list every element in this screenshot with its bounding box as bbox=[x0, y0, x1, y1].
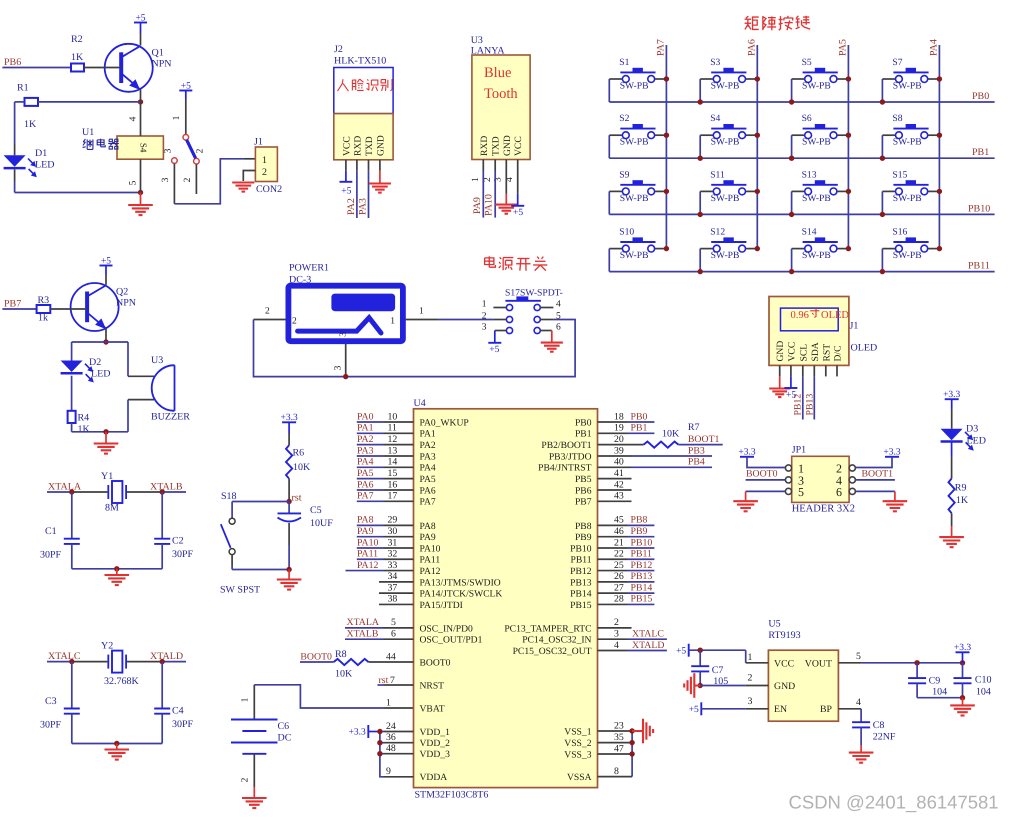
svg-text:1: 1 bbox=[172, 115, 182, 120]
net label PA4 bbox=[929, 39, 940, 56]
junction bbox=[343, 374, 348, 379]
svg-text:16: 16 bbox=[388, 479, 398, 490]
svg-text:PA1: PA1 bbox=[357, 423, 374, 434]
svg-text:S10: S10 bbox=[619, 227, 634, 238]
wire bbox=[71, 376, 73, 411]
pin 32 wire bbox=[357, 549, 414, 560]
svg-text:37: 37 bbox=[388, 582, 398, 593]
net label rst (NRST) bbox=[379, 675, 389, 686]
svg-text:OLED: OLED bbox=[851, 343, 878, 354]
svg-text:S6: S6 bbox=[802, 113, 812, 124]
svg-text:PB12: PB12 bbox=[570, 566, 592, 577]
pushbutton S15 SW-PB bbox=[882, 169, 939, 204]
svg-text:VOUT: VOUT bbox=[805, 658, 832, 669]
junction bbox=[789, 246, 851, 274]
svg-text:1k: 1k bbox=[38, 313, 48, 324]
wire to buzzer bbox=[128, 342, 154, 432]
pin names U4 right bbox=[504, 417, 591, 783]
wire bbox=[105, 328, 107, 342]
svg-text:J1: J1 bbox=[254, 137, 263, 148]
svg-text:+5: +5 bbox=[341, 187, 351, 197]
junction bbox=[69, 489, 165, 494]
net label PA2 bbox=[357, 434, 374, 445]
net label PA1 bbox=[357, 423, 374, 434]
svg-text:BOOT0: BOOT0 bbox=[420, 657, 451, 668]
svg-text:PB13: PB13 bbox=[804, 394, 815, 416]
net label BOOT1 (JP1) bbox=[862, 468, 894, 479]
svg-text:PB6: PB6 bbox=[575, 485, 592, 496]
wire loop bbox=[254, 320, 576, 377]
svg-text:JP1: JP1 bbox=[792, 445, 806, 456]
module U3 LANYA bbox=[471, 35, 530, 160]
wire bbox=[47, 491, 186, 493]
svg-text:PB12: PB12 bbox=[793, 394, 804, 416]
ground (VSS) bbox=[632, 719, 653, 744]
net label XTALD bbox=[150, 651, 183, 662]
module J1 OLED bbox=[769, 297, 877, 366]
svg-text:4: 4 bbox=[556, 300, 561, 310]
svg-text:+5: +5 bbox=[135, 13, 145, 23]
wire bbox=[608, 249, 610, 272]
svg-text:PB2/BOOT1: PB2/BOOT1 bbox=[541, 440, 591, 451]
svg-text:1K: 1K bbox=[71, 52, 84, 63]
svg-text:3: 3 bbox=[482, 323, 487, 333]
ground (Y1) bbox=[105, 569, 130, 585]
junction bbox=[880, 133, 942, 161]
capacitor C1 bbox=[40, 526, 80, 561]
svg-text:PA15/JTDI: PA15/JTDI bbox=[420, 600, 463, 611]
wire / net BOOT1 bbox=[678, 434, 722, 445]
capacitor C2 bbox=[154, 536, 193, 561]
wire PA3 bbox=[358, 171, 369, 218]
wire bbox=[72, 714, 162, 744]
svg-text:LED: LED bbox=[91, 369, 110, 380]
label Blue Tooth bbox=[484, 65, 518, 102]
pin 29 wire bbox=[357, 515, 414, 526]
net label PA5 bbox=[838, 39, 849, 56]
svg-text:10K: 10K bbox=[662, 429, 680, 440]
svg-text:PB10: PB10 bbox=[631, 537, 653, 548]
svg-text:SW-PB: SW-PB bbox=[802, 81, 831, 92]
svg-text:S11: S11 bbox=[710, 169, 725, 180]
svg-text:PA4: PA4 bbox=[357, 457, 374, 468]
pin 26 wire / net PB13 bbox=[598, 571, 655, 582]
svg-text:PA4: PA4 bbox=[929, 39, 940, 56]
wire bbox=[72, 544, 162, 569]
net label BOOT0 bbox=[300, 651, 332, 662]
svg-text:PA4: PA4 bbox=[420, 463, 436, 474]
wire bbox=[15, 102, 141, 155]
svg-text:PA2: PA2 bbox=[357, 434, 374, 445]
svg-text:1: 1 bbox=[482, 300, 487, 310]
pin 44 wire bbox=[369, 651, 414, 662]
net label PA3 bbox=[357, 445, 374, 456]
svg-text:Q2: Q2 bbox=[116, 287, 128, 298]
svg-text:VSSA: VSSA bbox=[567, 772, 592, 783]
wire row bbox=[609, 213, 994, 215]
junction bbox=[698, 683, 703, 688]
svg-text:+3.3: +3.3 bbox=[738, 448, 755, 458]
wire bbox=[608, 79, 610, 102]
wire / ground (JP1 pin6) bbox=[856, 491, 908, 511]
label 0.96寸OLED bbox=[791, 308, 850, 321]
ground (Y2) bbox=[105, 744, 130, 760]
ground (C7) bbox=[684, 673, 700, 698]
svg-text:6: 6 bbox=[556, 323, 561, 333]
ground (R9) bbox=[939, 537, 964, 547]
wire bbox=[791, 249, 793, 272]
pin 41 stub bbox=[598, 468, 632, 479]
svg-text:PB1: PB1 bbox=[575, 429, 592, 440]
svg-text:+5: +5 bbox=[101, 256, 111, 266]
pushbutton S8 SW-PB bbox=[882, 113, 939, 148]
resistor R9 bbox=[949, 479, 969, 514]
svg-text:PA5: PA5 bbox=[357, 468, 374, 479]
svg-text:rst: rst bbox=[292, 493, 302, 504]
svg-text:R9: R9 bbox=[955, 483, 967, 494]
svg-text:D2: D2 bbox=[89, 357, 101, 368]
pin 15 wire bbox=[357, 468, 414, 479]
svg-text:D/C: D/C bbox=[833, 346, 844, 362]
svg-text:VCC: VCC bbox=[341, 136, 352, 156]
power +3.3 (R6) bbox=[280, 413, 297, 445]
pin 2 (POWER1) bbox=[254, 307, 298, 327]
LED D3 bbox=[941, 424, 986, 451]
power +3.3 (VOUT) bbox=[954, 643, 971, 663]
svg-text:10K: 10K bbox=[293, 462, 311, 473]
power +3.3 (VDD) bbox=[349, 725, 380, 738]
svg-text:25: 25 bbox=[614, 560, 624, 571]
wire bbox=[881, 191, 883, 214]
svg-text:1K: 1K bbox=[956, 495, 969, 506]
wire / net PB12 bbox=[793, 376, 804, 419]
junction bbox=[664, 133, 669, 138]
svg-text:C3: C3 bbox=[45, 696, 57, 707]
pin names U3 bbox=[479, 135, 524, 156]
net label rst bbox=[292, 493, 302, 504]
svg-text:C1: C1 bbox=[45, 526, 57, 537]
net label PB6 bbox=[4, 57, 21, 68]
pin 3 wire / net XTALC bbox=[598, 629, 667, 640]
power +5 (J2) bbox=[340, 171, 353, 197]
pin 45 wire / net PB8 bbox=[598, 515, 655, 526]
svg-text:RT9193: RT9193 bbox=[768, 630, 800, 641]
svg-text:4: 4 bbox=[614, 640, 619, 651]
pushbutton S14 SW-PB bbox=[792, 227, 849, 262]
svg-text:C8: C8 bbox=[873, 720, 885, 731]
svg-text:BOOT0: BOOT0 bbox=[746, 468, 778, 479]
pin 28 wire / net PB15 bbox=[598, 594, 655, 605]
capacitor C9 bbox=[908, 663, 947, 698]
svg-text:PA6: PA6 bbox=[420, 485, 436, 496]
junction bbox=[698, 648, 703, 653]
svg-text:PA2: PA2 bbox=[346, 198, 357, 215]
pin 5 wire bbox=[838, 651, 962, 663]
svg-text:PB10: PB10 bbox=[968, 203, 990, 214]
pin 30 wire bbox=[357, 526, 414, 537]
svg-text:rst: rst bbox=[379, 675, 389, 686]
svg-text:3: 3 bbox=[161, 177, 171, 182]
battery C6 DC bbox=[231, 720, 292, 754]
svg-text:PA9: PA9 bbox=[472, 197, 483, 214]
svg-text:S14: S14 bbox=[802, 227, 817, 238]
svg-text:PC13_TAMPER_RTC: PC13_TAMPER_RTC bbox=[504, 623, 591, 634]
svg-text:SW-PB: SW-PB bbox=[893, 250, 922, 261]
svg-text:4: 4 bbox=[129, 116, 139, 121]
svg-text:CSDN @2401_86147581: CSDN @2401_86147581 bbox=[789, 792, 999, 813]
junction bbox=[698, 76, 761, 104]
svg-text:2: 2 bbox=[196, 148, 206, 153]
svg-text:XTALD: XTALD bbox=[150, 651, 183, 662]
wire bbox=[951, 442, 953, 478]
svg-text:PB14: PB14 bbox=[631, 582, 653, 593]
pin wires J2 bbox=[346, 160, 380, 171]
svg-text:HEADER 3X2: HEADER 3X2 bbox=[792, 504, 855, 515]
label 继电器 bbox=[83, 139, 119, 150]
svg-text:SW-PB: SW-PB bbox=[711, 137, 740, 148]
pin names J2 bbox=[341, 135, 386, 156]
svg-text:S1: S1 bbox=[619, 57, 629, 68]
svg-text:Blue: Blue bbox=[484, 65, 511, 81]
svg-text:23: 23 bbox=[614, 720, 624, 731]
svg-text:S9: S9 bbox=[619, 169, 629, 180]
pin 1 wire bbox=[746, 650, 769, 663]
svg-text:PA12: PA12 bbox=[357, 560, 379, 571]
svg-text:S8: S8 bbox=[892, 113, 902, 124]
svg-text:48: 48 bbox=[386, 743, 396, 754]
junction bbox=[880, 76, 942, 104]
power +5 (U3) bbox=[511, 160, 524, 219]
pin stubs S17 bbox=[493, 308, 553, 320]
net label PA9 bbox=[357, 526, 374, 537]
pin 40 wire / net PB4 bbox=[598, 457, 713, 468]
wire VSS bus bbox=[598, 731, 633, 777]
svg-text:PB11: PB11 bbox=[631, 549, 653, 560]
svg-text:XTALA: XTALA bbox=[48, 481, 82, 492]
svg-text:C9: C9 bbox=[929, 676, 941, 687]
svg-text:3: 3 bbox=[338, 332, 348, 337]
svg-text:22NF: 22NF bbox=[873, 732, 896, 743]
svg-text:SDA: SDA bbox=[810, 342, 821, 361]
svg-text:D3: D3 bbox=[966, 424, 978, 435]
svg-text:7: 7 bbox=[390, 675, 395, 686]
regulator U5 RT9193 bbox=[768, 619, 838, 722]
wire bbox=[50, 308, 87, 310]
ground (OLED) bbox=[769, 376, 790, 397]
wire bbox=[791, 79, 793, 102]
svg-text:U5: U5 bbox=[768, 619, 780, 630]
wire column PA6 bbox=[756, 45, 758, 249]
junction bbox=[789, 189, 851, 217]
svg-text:PB12: PB12 bbox=[631, 560, 653, 571]
svg-text:2: 2 bbox=[265, 307, 270, 317]
svg-text:VSS_2: VSS_2 bbox=[564, 738, 591, 749]
net label XTALC bbox=[48, 651, 81, 662]
wire bbox=[72, 423, 128, 432]
svg-text:R2: R2 bbox=[71, 34, 83, 45]
LED D2 bbox=[61, 357, 111, 383]
junction bbox=[880, 246, 942, 274]
svg-text:XTALD: XTALD bbox=[632, 640, 664, 651]
pin 1 number bbox=[386, 697, 391, 708]
svg-text:30PF: 30PF bbox=[40, 550, 62, 561]
wire bbox=[951, 513, 953, 537]
svg-text:SW-PB: SW-PB bbox=[620, 81, 649, 92]
wire column PA7 bbox=[665, 45, 667, 249]
svg-text:11: 11 bbox=[388, 423, 398, 434]
net label XTALB bbox=[150, 481, 183, 492]
svg-text:3: 3 bbox=[164, 148, 174, 153]
ground (C6) bbox=[242, 787, 267, 808]
svg-text:18: 18 bbox=[614, 411, 624, 422]
svg-text:47: 47 bbox=[614, 743, 624, 754]
pushbutton S6 SW-PB bbox=[792, 113, 849, 148]
svg-text:2: 2 bbox=[241, 777, 251, 782]
power +5 (switch) bbox=[179, 81, 192, 134]
svg-text:PA5: PA5 bbox=[838, 39, 849, 56]
svg-text:R3: R3 bbox=[38, 295, 50, 306]
svg-text:36: 36 bbox=[386, 732, 396, 743]
svg-text:PB4: PB4 bbox=[688, 457, 705, 468]
wire row bbox=[609, 101, 994, 103]
pin names U4 left bbox=[420, 417, 503, 783]
svg-text:HLK-TX510: HLK-TX510 bbox=[334, 56, 386, 67]
svg-text:Tooth: Tooth bbox=[484, 86, 518, 102]
net label XTALB (U4) bbox=[347, 629, 379, 640]
net label PA6 bbox=[357, 479, 374, 490]
ground (C10) bbox=[950, 698, 975, 716]
svg-text:U4: U4 bbox=[414, 398, 426, 409]
svg-text:VDD_1: VDD_1 bbox=[420, 727, 451, 738]
resistor R2 bbox=[71, 34, 84, 72]
pin 18 wire / net PB0 bbox=[598, 411, 655, 422]
svg-text:SW-PB: SW-PB bbox=[711, 250, 740, 261]
svg-text:30PF: 30PF bbox=[40, 720, 62, 731]
svg-text:10K: 10K bbox=[335, 669, 353, 680]
svg-text:PB10: PB10 bbox=[570, 543, 592, 554]
svg-text:3: 3 bbox=[334, 365, 344, 370]
svg-text:29: 29 bbox=[388, 515, 398, 526]
svg-text:1K: 1K bbox=[78, 424, 91, 435]
svg-text:PB7: PB7 bbox=[4, 298, 21, 309]
svg-text:42: 42 bbox=[614, 479, 624, 490]
wire PA2 bbox=[346, 171, 357, 218]
net label PA11 bbox=[357, 549, 378, 560]
pin 25 wire / net PB12 bbox=[598, 560, 655, 571]
svg-text:+3.3: +3.3 bbox=[943, 390, 960, 400]
svg-text:3: 3 bbox=[748, 696, 753, 707]
svg-text:10UF: 10UF bbox=[310, 518, 333, 529]
svg-text:1: 1 bbox=[748, 652, 753, 663]
wire bbox=[72, 492, 162, 539]
resistor R8 bbox=[334, 649, 369, 680]
svg-text:Y1: Y1 bbox=[101, 471, 113, 482]
svg-text:J2: J2 bbox=[334, 44, 343, 55]
svg-text:24: 24 bbox=[386, 721, 396, 732]
svg-text:Q1: Q1 bbox=[152, 48, 164, 59]
pin 2 (C6) bbox=[241, 754, 255, 787]
svg-text:PA0_WKUP: PA0_WKUP bbox=[420, 417, 469, 428]
svg-text:TXD: TXD bbox=[491, 136, 502, 156]
pushbutton S3 SW-PB bbox=[700, 57, 757, 92]
power +5 (S17 pin3) bbox=[488, 331, 506, 356]
svg-text:PB11: PB11 bbox=[968, 261, 990, 272]
svg-text:XTALA: XTALA bbox=[347, 617, 379, 628]
wire column PA5 bbox=[847, 45, 849, 249]
svg-text:PA10: PA10 bbox=[484, 194, 495, 216]
svg-text:PA14/JTCK/SWCLK: PA14/JTCK/SWCLK bbox=[420, 589, 503, 600]
wire bbox=[699, 79, 701, 102]
svg-text:+5: +5 bbox=[489, 345, 499, 355]
resistor R3 bbox=[37, 295, 51, 324]
junction bbox=[103, 429, 108, 434]
net label PB7 bbox=[4, 298, 21, 309]
pin 39 wire / net PB3 bbox=[598, 445, 713, 456]
wire / net PB13 bbox=[804, 376, 815, 419]
junction bbox=[789, 133, 851, 161]
svg-text:OLED: OLED bbox=[821, 310, 849, 321]
svg-text:PB4/JNTRST: PB4/JNTRST bbox=[538, 463, 591, 474]
svg-text:S4: S4 bbox=[138, 143, 148, 153]
svg-text:SW-PB: SW-PB bbox=[620, 250, 649, 261]
svg-text:C10: C10 bbox=[975, 675, 992, 686]
svg-text:+5: +5 bbox=[689, 705, 699, 715]
resistor R1 bbox=[17, 83, 38, 131]
svg-text:VCC: VCC bbox=[513, 136, 524, 156]
svg-text:PB14: PB14 bbox=[570, 589, 592, 600]
svg-text:GND: GND bbox=[375, 135, 386, 156]
svg-text:21: 21 bbox=[614, 537, 624, 548]
svg-text:R1: R1 bbox=[17, 83, 29, 94]
junction bbox=[69, 659, 165, 664]
IC U4 STM32F103C8T6 bbox=[414, 398, 598, 801]
svg-text:34: 34 bbox=[388, 571, 398, 582]
svg-text:VCC: VCC bbox=[774, 658, 794, 669]
wire bbox=[288, 479, 290, 502]
connector J1 bbox=[254, 137, 282, 196]
power +5 (OLED) bbox=[784, 376, 797, 400]
pin 3 (POWER1) bbox=[334, 332, 348, 377]
svg-text:0.96: 0.96 bbox=[791, 310, 809, 321]
svg-text:PA3: PA3 bbox=[357, 445, 374, 456]
svg-text:+3.3: +3.3 bbox=[954, 643, 971, 653]
crystal Y2 bbox=[101, 641, 140, 688]
pin 2 wire bbox=[700, 673, 768, 686]
wire bbox=[288, 523, 290, 570]
svg-text:VDD_3: VDD_3 bbox=[420, 749, 451, 760]
svg-text:PB0: PB0 bbox=[972, 91, 989, 102]
wire bbox=[232, 555, 289, 570]
svg-text:PA10: PA10 bbox=[420, 543, 441, 554]
svg-text:BP: BP bbox=[820, 704, 833, 715]
junction bbox=[664, 189, 669, 194]
power +5 (U5 VCC) bbox=[676, 644, 746, 657]
pin 1 label bbox=[172, 115, 182, 120]
power +3.3 (JP1 pin1) bbox=[738, 448, 785, 468]
wire column PA4 bbox=[938, 45, 940, 249]
junction bbox=[138, 99, 143, 104]
wire bbox=[699, 135, 701, 158]
svg-text:PB0: PB0 bbox=[631, 411, 648, 422]
pin 37 stub bbox=[379, 582, 414, 593]
junction bbox=[698, 133, 761, 161]
svg-text:PB9: PB9 bbox=[631, 526, 648, 537]
ground (Q2) bbox=[94, 432, 119, 454]
svg-text:GND: GND bbox=[774, 681, 795, 692]
net label PA7 bbox=[357, 491, 374, 502]
power +5 (Q1 collector) bbox=[134, 13, 147, 45]
svg-text:C6: C6 bbox=[278, 721, 290, 732]
